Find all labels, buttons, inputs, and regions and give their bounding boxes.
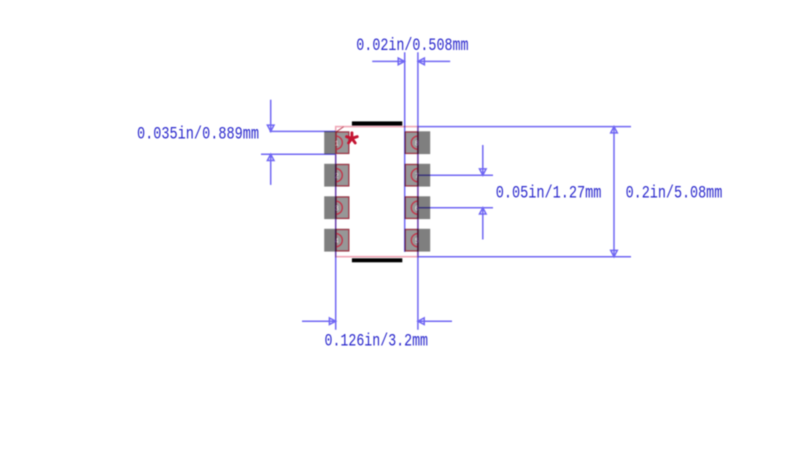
svg-text:0.035in/0.889mm: 0.035in/0.889mm (137, 126, 259, 145)
svg-text:0.126in/3.2mm: 0.126in/3.2mm (325, 333, 429, 352)
svg-text:0.2in/5.08mm: 0.2in/5.08mm (626, 185, 723, 204)
svg-text:0.02in/0.508mm: 0.02in/0.508mm (356, 37, 468, 56)
svg-text:0.05in/1.27mm: 0.05in/1.27mm (496, 185, 602, 204)
